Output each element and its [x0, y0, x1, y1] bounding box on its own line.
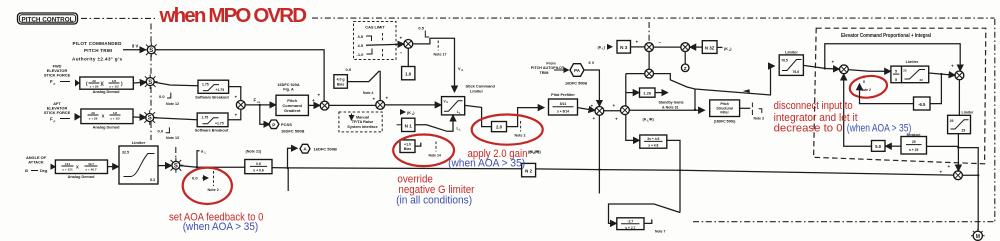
svg-text:Note 2: Note 2 — [515, 134, 526, 138]
block pitch command gradient — [276, 83, 308, 116]
svg-text:16DFC 520A: 16DFC 520A — [277, 83, 299, 87]
block AOA analog demod filter — [55, 160, 107, 179]
svg-text:Note 2: Note 2 — [208, 188, 219, 192]
svg-text:0.5: 0.5 — [418, 25, 424, 30]
block pitch structural filter — [710, 100, 740, 124]
switch S4 (AOA MPO) — [169, 158, 184, 173]
wire stub below A-tap — [287, 168, 289, 191]
wire MPO drop to S1 — [150, 24, 152, 46]
svg-text:0.0: 0.0 — [192, 176, 198, 181]
svg-text:N 1: N 1 — [405, 123, 413, 128]
svg-text:16DFC 500B: 16DFC 500B — [565, 82, 587, 86]
svg-text:PA: PA — [574, 68, 581, 73]
svg-text:+: + — [386, 96, 389, 101]
svg-text:From: From — [546, 61, 556, 65]
wire S2 to breakout — [155, 82, 198, 86]
svg-text:Limiter: Limiter — [785, 51, 798, 55]
svg-text:5.0: 5.0 — [875, 144, 881, 149]
wire MPO drop S2 to S3 — [150, 87, 152, 112]
wire limiter to 2.0 gain — [465, 105, 491, 126]
block software breakout aft — [195, 113, 229, 133]
svg-text:+: + — [312, 98, 315, 103]
svg-text:Authority ±2.43° g's: Authority ±2.43° g's — [72, 57, 122, 62]
block 2.0 gain — [492, 122, 507, 132]
svg-text:+: + — [613, 103, 616, 108]
wire C down to E — [648, 51, 650, 69]
svg-text:8/14: 8/14 — [560, 102, 567, 106]
wire J2 to stick command limiter — [385, 104, 441, 106]
wire PCG to sum J1 — [308, 104, 319, 106]
node P PCSS — [269, 120, 279, 129]
svg-text:X: X — [76, 165, 79, 170]
svg-text:p: p — [54, 82, 56, 86]
svg-text:76.6: 76.6 — [793, 70, 800, 74]
wire PI to sum G — [929, 73, 955, 75]
wire tap to PCSS — [260, 105, 270, 124]
svg-text:Note 4: Note 4 — [363, 91, 373, 95]
summing junction E — [645, 69, 654, 78]
svg-text:+: + — [235, 95, 238, 100]
svg-text:Software Breakout: Software Breakout — [195, 95, 229, 99]
svg-text:Analog Demod: Analog Demod — [93, 90, 120, 94]
wire AOA block to limiter — [108, 166, 119, 168]
wire integrator feedback loop top — [825, 44, 960, 71]
node A-tap to 16DFC 500B — [286, 167, 288, 169]
svg-text:N 3: N 3 — [620, 45, 628, 50]
svg-text:Gradient: Gradient — [284, 108, 301, 113]
svg-text:M: M — [976, 234, 980, 240]
svg-text:+: + — [318, 93, 321, 98]
svg-text:+: + — [400, 36, 403, 41]
svg-text:+: + — [591, 104, 594, 109]
label PITCH CONTROL — [18, 13, 78, 24]
block -6.5 integrator leak — [914, 97, 931, 110]
block 1.0 (negative G limit value) — [402, 67, 415, 80]
svg-text:Standby Gains: Standby Gains — [659, 101, 684, 105]
wire — [133, 81, 146, 84]
node 0.0 note 2 (AOA feedback zero) — [192, 171, 219, 192]
svg-text:N 2: N 2 — [525, 169, 533, 174]
svg-text:8 V: 8 V — [132, 44, 138, 49]
svg-text:& Note 31: & Note 31 — [662, 105, 679, 109]
wire D to C — [653, 46, 681, 48]
block +1.0 bias — [400, 140, 441, 158]
svg-text:/R): /R) — [649, 118, 655, 122]
svg-text:/R): /R) — [536, 150, 542, 154]
svg-text:Note 12: Note 12 — [166, 102, 179, 106]
svg-text:s + 1/2: s + 1/2 — [109, 85, 119, 89]
block 5.0 trim gain — [872, 141, 886, 152]
svg-text:-1.0: -1.0 — [357, 52, 365, 57]
svg-text:Note 14: Note 14 — [429, 154, 441, 158]
block limiter 76.5 — [779, 51, 803, 76]
block proportional + integral — [891, 60, 929, 83]
svg-text:Note 13: Note 13 — [166, 136, 179, 140]
wire MPO boundary bottom edge — [693, 221, 995, 223]
wire E left to pitch rate vertical — [626, 73, 645, 75]
svg-text:PITCH CONTROL: PITCH CONTROL — [22, 16, 74, 23]
wire — [133, 116, 146, 118]
block N1 (AOA limit gain) — [402, 118, 415, 131]
svg-text:s + 40.7: s + 40.7 — [85, 168, 97, 172]
svg-text:(K: (K — [407, 111, 411, 115]
svg-text:23: 23 — [920, 78, 924, 82]
block FWD force filter (29/s+29)(12/s+12) — [80, 77, 134, 94]
summing junction J3 (g limit) — [404, 40, 413, 49]
wire limiter to S4 — [158, 165, 171, 167]
svg-text:16DFC 500B: 16DFC 500B — [281, 129, 304, 134]
wire trim feedback to sum F — [844, 74, 872, 146]
svg-text:+: + — [235, 112, 238, 117]
svg-text:Z: Z — [684, 66, 687, 71]
switch S1 (trim MPO) — [144, 42, 159, 57]
node FWD elevator stick force — [44, 64, 80, 87]
svg-text:+1.75: +1.75 — [215, 121, 224, 125]
svg-text:1.26: 1.26 — [643, 91, 652, 96]
block N3Z — [702, 41, 717, 54]
svg-text:3s + 4.8: 3s + 4.8 — [647, 137, 659, 141]
wire structural filter to switch note 3 — [740, 107, 751, 109]
wire 2.7 washout loop — [609, 204, 681, 223]
svg-text:+: + — [832, 60, 835, 65]
svg-text:4.5: 4.5 — [358, 43, 364, 48]
svg-text:32.5: 32.5 — [122, 151, 129, 155]
svg-text:): ) — [604, 45, 606, 49]
svg-text:16DFC 500B: 16DFC 500B — [314, 147, 337, 152]
node from pitch autopilot trim — [531, 61, 569, 75]
svg-text:(when AOA > 35): (when AOA > 35) — [183, 221, 259, 233]
wire AOA main line — [180, 166, 244, 168]
wire limiter76 to sum F — [803, 65, 839, 69]
svg-text:Elevator Command Proportional: Elevator Command Proportional + Integral — [841, 33, 932, 39]
svg-text:s + 29: s + 29 — [90, 85, 99, 89]
block 4.0 g bias — [334, 67, 352, 88]
svg-text:+1.75: +1.75 — [216, 88, 225, 92]
svg-text:1.75: 1.75 — [202, 115, 209, 119]
block N3 — [617, 41, 631, 54]
svg-text:Pilot Prefilter: Pilot Prefilter — [551, 93, 575, 97]
svg-text:121: 121 — [65, 162, 70, 166]
wire branch to output actuator — [958, 148, 978, 231]
wire J1 to J2 — [329, 104, 376, 106]
wire 2.0 gain up to prefilter — [507, 108, 544, 127]
svg-text:PILOT COMMANDED: PILOT COMMANDED — [73, 41, 123, 46]
wire breakout aft to sum J0 — [228, 110, 241, 120]
svg-text:(in all conditions): (in all conditions) — [396, 195, 472, 207]
svg-text:ATTACK: ATTACK — [28, 160, 44, 165]
node pilot commanded pitch trim — [72, 41, 146, 62]
wire sum B to structural filter — [629, 109, 704, 111]
wire PA to sum A — [584, 70, 599, 106]
block 1.26 standby gain — [640, 88, 656, 97]
block AOA limiter — [119, 140, 158, 184]
svg-text:Analog Demod: Analog Demod — [68, 175, 95, 179]
svg-text:s + 25: s + 25 — [909, 148, 918, 152]
svg-text:29: 29 — [92, 79, 96, 83]
svg-text:Manual: Manual — [356, 115, 369, 119]
block stick command limiter — [442, 84, 496, 115]
block manual TF/TA interface (dashed) — [339, 112, 382, 132]
svg-text:4.0 g: 4.0 g — [337, 77, 345, 81]
svg-text:+: + — [615, 117, 618, 122]
switch S2 (fwd force MPO) — [143, 74, 158, 89]
svg-text:6 V: 6 V — [589, 60, 595, 65]
svg-text:CAS LIMIT: CAS LIMIT — [365, 25, 385, 30]
svg-text:76.5: 76.5 — [781, 58, 788, 62]
svg-text:L: L — [205, 150, 207, 154]
block 2.7/s+2.7 — [617, 218, 644, 230]
svg-text:(Note 21): (Note 21) — [246, 149, 263, 153]
svg-text:L: L — [459, 128, 461, 132]
block AFT force filter — [81, 109, 133, 129]
svg-text:N 3Z: N 3Z — [705, 45, 715, 50]
summing junction F — [840, 65, 849, 74]
svg-text:-2.7: -2.7 — [628, 220, 634, 224]
svg-text:s + 8/14: s + 8/14 — [557, 109, 569, 113]
svg-text:0.6: 0.6 — [256, 162, 261, 166]
svg-text:0.0: 0.0 — [158, 129, 164, 134]
wire drop to structural filter input — [694, 89, 696, 110]
wire CAS to sum J3 — [366, 44, 404, 45]
svg-text:+: + — [593, 116, 596, 121]
svg-text:α: α — [201, 148, 204, 153]
svg-text:(: ( — [86, 81, 88, 87]
svg-text:+: + — [951, 64, 954, 69]
node Z delay — [684, 51, 686, 64]
wire bias switch into J2 — [347, 71, 380, 100]
block washout 3s+4B — [640, 135, 667, 148]
wire breakout fwd to sum J0 — [229, 87, 241, 101]
svg-text:Deg: Deg — [40, 168, 48, 173]
svg-text:): ) — [730, 47, 732, 51]
svg-text:s + 2.7: s + 2.7 — [625, 226, 635, 230]
svg-text:5: 5 — [895, 70, 897, 74]
node angle of attack — [25, 155, 56, 173]
wire MPO boundary right edge — [994, 19, 996, 222]
svg-text:Analog Demod: Analog Demod — [93, 125, 120, 129]
wire prefilter to sum A — [578, 108, 595, 111]
annotation circle AOA note2 — [183, 168, 232, 204]
block CAS LIMIT (dashed) — [354, 22, 397, 60]
node alpha-L tap — [196, 166, 198, 168]
wire J0 to pitch command gradient — [245, 104, 275, 106]
svg-text:P: P — [272, 122, 275, 127]
svg-text:(16DFC 500b): (16DFC 500b) — [714, 119, 736, 123]
wire S3 to breakout — [154, 118, 197, 120]
svg-text:s + 121: s + 121 — [62, 168, 73, 172]
summing junction J2 — [376, 101, 385, 110]
svg-text:A: A — [446, 101, 448, 104]
svg-text:−: − — [400, 51, 403, 56]
svg-text:X: X — [102, 114, 105, 119]
svg-text:1/2: 1/2 — [112, 79, 117, 83]
block 25/s+25 breakout — [901, 133, 927, 154]
svg-text:STICK FORCE: STICK FORCE — [44, 72, 71, 77]
wire N1 switch to limiter LL input — [415, 115, 453, 131]
svg-text:System Interface: System Interface — [347, 125, 377, 129]
svg-text:)(: )( — [101, 81, 105, 87]
wire MPO drop to S4 — [175, 147, 177, 159]
annotation circle override G limiter — [393, 135, 454, 167]
svg-text:40.7: 40.7 — [88, 162, 94, 166]
svg-text:25: 25 — [912, 140, 916, 144]
summing junction J0 (stick force) — [236, 101, 245, 110]
svg-text:Limiter: Limiter — [962, 111, 975, 115]
svg-text:s + 29: s + 29 — [89, 117, 98, 121]
block 0.6/s+0.6 (note 21) — [245, 149, 272, 173]
svg-text:2.0: 2.0 — [496, 124, 503, 129]
svg-text:s + 1/2: s + 1/2 — [110, 117, 120, 121]
svg-text:22: 22 — [903, 68, 907, 72]
svg-text:decrease to 0: decrease to 0 — [774, 123, 843, 135]
svg-text:0.0: 0.0 — [346, 67, 352, 72]
summing junction G — [955, 71, 964, 80]
block elevator command P+I (dashed box) — [814, 28, 986, 164]
svg-text:α: α — [25, 168, 28, 173]
wire MPO boundary top left segment — [81, 17, 155, 19]
svg-text:1.75: 1.75 — [202, 82, 209, 86]
wire washout down across AOA line — [667, 140, 680, 212]
svg-text:s + 0.6: s + 0.6 — [253, 168, 264, 172]
block limiter 29 — [948, 111, 974, 134]
svg-text:+: + — [636, 39, 639, 44]
summing junction J1 — [320, 101, 329, 110]
svg-text:5.3: 5.3 — [150, 178, 155, 182]
svg-text:+: + — [373, 97, 376, 102]
block software breakout fwd — [195, 80, 229, 99]
svg-text:TF/TA Raise: TF/TA Raise — [352, 120, 374, 124]
node PA hexagon — [565, 60, 595, 86]
node AFT elevator stick force — [44, 101, 81, 123]
svg-text:Limiter: Limiter — [906, 60, 919, 64]
summing junction B — [621, 106, 630, 115]
wire pitch rate path vertical — [626, 74, 639, 141]
summing junction C — [645, 43, 654, 52]
svg-text:29: 29 — [962, 128, 966, 132]
node 0.0 note 13 — [158, 127, 179, 140]
wire sum F to PI block with note2 break — [848, 70, 890, 72]
wire J3 over to stick limiter VA input — [413, 38, 455, 92]
wire sum G down to limiter 29 — [958, 80, 960, 115]
svg-text:1/2: 1/2 — [113, 111, 118, 115]
svg-text:Limiter: Limiter — [470, 88, 483, 93]
svg-text:+: + — [940, 170, 943, 175]
svg-text:TRIM: TRIM — [539, 71, 548, 75]
svg-text:Note 17: Note 17 — [434, 52, 447, 56]
summing junction A — [595, 107, 604, 116]
svg-text:STICK FORCE: STICK FORCE — [44, 110, 71, 115]
annotation circle apply 2.0 gain — [472, 115, 543, 145]
svg-text:): ) — [413, 111, 415, 115]
svg-text:Note 7: Note 7 — [655, 230, 665, 234]
svg-text:A: A — [461, 68, 463, 72]
svg-text:disconnect input to: disconnect input to — [774, 100, 853, 112]
svg-text:s + 4.8: s + 4.8 — [648, 144, 658, 148]
svg-text:cs: cs — [257, 100, 261, 104]
svg-text:(when AOA > 35): (when AOA > 35) — [448, 157, 525, 169]
node (KL) label — [400, 111, 405, 113]
wire sum H to actuator line — [962, 174, 978, 176]
wire -6.5 feedback — [930, 74, 941, 104]
svg-text:+1.0: +1.0 — [404, 142, 411, 146]
wire sum A to sum B — [604, 110, 620, 112]
switch S3 (aft force MPO) — [142, 110, 157, 125]
block N2 (AOA gain) — [522, 163, 536, 176]
wire MPO drop below S3 — [150, 122, 152, 140]
svg-text:0.0: 0.0 — [159, 94, 165, 99]
svg-text:Note 2: Note 2 — [861, 88, 871, 92]
wire limiter29 down to sum H — [957, 134, 959, 171]
svg-text:(K: (K — [598, 45, 602, 49]
svg-text:29: 29 — [91, 111, 95, 115]
svg-text:(K: (K — [643, 118, 647, 122]
wire MPO boundary top right segment — [312, 17, 995, 19]
node actuator output — [971, 229, 985, 241]
svg-text:(K: (K — [724, 47, 728, 51]
svg-text:Bias: Bias — [337, 82, 344, 86]
svg-text:): ) — [121, 81, 123, 87]
svg-text:1.0: 1.0 — [405, 71, 412, 76]
svg-text:29: 29 — [950, 119, 954, 123]
wire 1.0 to J3 — [407, 48, 409, 66]
svg-text:5: 5 — [895, 78, 897, 82]
svg-text:PCSS: PCSS — [281, 122, 292, 127]
svg-text:Filter: Filter — [720, 111, 729, 115]
svg-text:Software Breakout: Software Breakout — [195, 129, 229, 133]
svg-text:3.5: 3.5 — [358, 34, 364, 39]
svg-text:(K: (K — [530, 150, 534, 154]
svg-text:PITCH TRIM: PITCH TRIM — [84, 48, 112, 53]
svg-text:(when AOA > 35): (when AOA > 35) — [847, 123, 912, 135]
wire trim to sum J1 — [156, 50, 324, 101]
svg-text:Note 3: Note 3 — [754, 116, 764, 120]
svg-text:when MPO OVRD: when MPO OVRD — [159, 4, 307, 27]
multiplier junction D — [681, 43, 690, 52]
annotation circle disconnect integrator — [849, 74, 889, 100]
wire E right sloping to integrator limiter — [653, 66, 774, 95]
block pilot prefilter — [549, 93, 578, 115]
svg-text:+: + — [948, 164, 951, 169]
svg-text:−: − — [659, 40, 662, 45]
svg-text:Bias: Bias — [404, 147, 411, 151]
svg-text:A: A — [303, 147, 307, 152]
svg-text:-6.5: -6.5 — [918, 102, 926, 107]
wire MPO drop S1 to S2 — [150, 55, 152, 76]
wire AOA line to N2 — [272, 168, 522, 169]
wire N2 to final sum — [536, 169, 954, 175]
summing junction H (final) — [954, 171, 963, 180]
svg-text:Fig. A: Fig. A — [283, 87, 294, 91]
svg-text:p: p — [54, 119, 56, 123]
svg-text:Limiter: Limiter — [132, 140, 146, 145]
wire AOA feedback up into sum A — [598, 115, 600, 193]
node 0.0 note 12 — [159, 93, 179, 106]
